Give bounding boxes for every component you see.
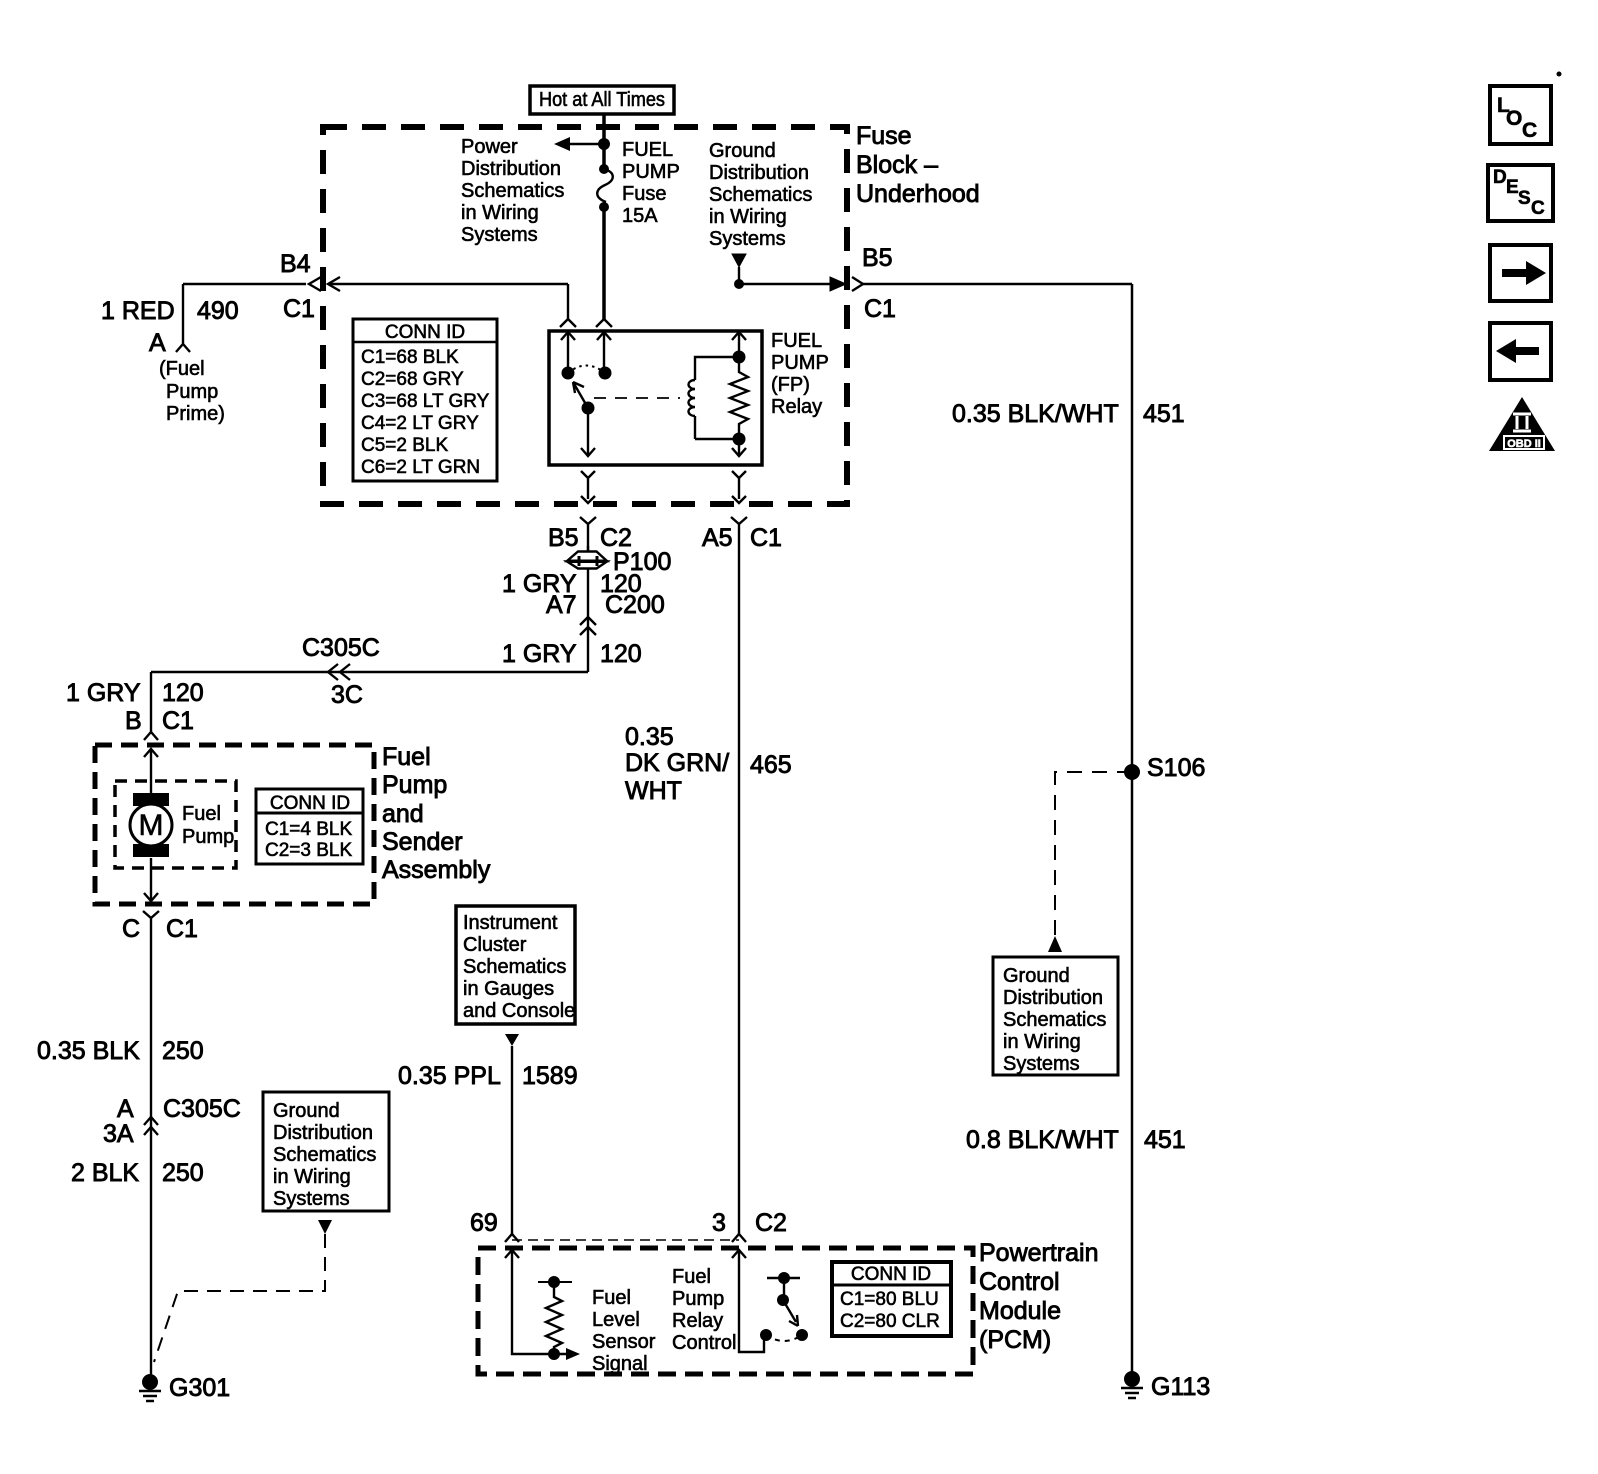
- svg-text:Assembly: Assembly: [382, 856, 491, 884]
- svg-text:2 BLK: 2 BLK: [71, 1159, 139, 1187]
- svg-text:Module: Module: [979, 1297, 1061, 1325]
- svg-text:Fuel: Fuel: [382, 743, 431, 771]
- svg-text:Fuse: Fuse: [622, 183, 666, 205]
- svg-text:Power: Power: [461, 136, 518, 158]
- svg-text:C: C: [122, 915, 140, 943]
- svg-text:in Wiring: in Wiring: [273, 1166, 351, 1188]
- svg-text:250: 250: [162, 1159, 204, 1187]
- svg-text:C1=4 BLK: C1=4 BLK: [265, 819, 352, 840]
- svg-text:Distribution: Distribution: [461, 158, 561, 180]
- svg-text:G113: G113: [1151, 1373, 1210, 1401]
- svg-text:in Wiring: in Wiring: [1003, 1031, 1081, 1053]
- svg-text:Relay: Relay: [771, 396, 822, 418]
- svg-text:0.35 BLK/WHT: 0.35 BLK/WHT: [952, 400, 1119, 428]
- svg-text:C1=68 BLK: C1=68 BLK: [361, 347, 459, 368]
- svg-text:C2=3 BLK: C2=3 BLK: [265, 840, 352, 861]
- svg-text:Block –: Block –: [856, 151, 938, 179]
- svg-text:Powertrain: Powertrain: [979, 1239, 1099, 1267]
- svg-text:Distribution: Distribution: [709, 162, 809, 184]
- svg-text:Control: Control: [672, 1332, 736, 1354]
- svg-text:Systems: Systems: [273, 1188, 350, 1210]
- svg-text:Fuse: Fuse: [856, 122, 912, 150]
- svg-text:1 RED: 1 RED: [101, 297, 175, 325]
- svg-text:B5: B5: [548, 524, 579, 552]
- svg-text:0.35: 0.35: [625, 723, 674, 751]
- svg-text:Distribution: Distribution: [1003, 987, 1103, 1009]
- svg-text:Schematics: Schematics: [273, 1144, 376, 1166]
- svg-text:C305C: C305C: [163, 1095, 241, 1123]
- svg-text:S106: S106: [1147, 754, 1205, 782]
- svg-text:DK GRN/: DK GRN/: [625, 749, 729, 777]
- svg-text:A: A: [117, 1095, 134, 1123]
- svg-text:Prime): Prime): [166, 403, 225, 425]
- svg-text:in Wiring: in Wiring: [709, 206, 787, 228]
- svg-text:Schematics: Schematics: [461, 180, 564, 202]
- svg-text:B: B: [125, 707, 142, 735]
- svg-text:Cluster: Cluster: [463, 934, 527, 956]
- svg-text:Instrument: Instrument: [463, 912, 558, 934]
- svg-text:FUEL: FUEL: [771, 330, 822, 352]
- svg-text:A5: A5: [702, 524, 733, 552]
- svg-text:and Console: and Console: [463, 1000, 575, 1022]
- svg-text:C4=2 LT GRY: C4=2 LT GRY: [361, 413, 479, 434]
- svg-text:B5: B5: [862, 244, 893, 272]
- svg-text:and: and: [382, 800, 424, 828]
- svg-text:120: 120: [600, 640, 642, 668]
- svg-text:M: M: [139, 809, 164, 842]
- svg-text:Ground: Ground: [1003, 965, 1070, 987]
- svg-text:15A: 15A: [622, 205, 658, 227]
- svg-text:A7: A7: [546, 591, 577, 619]
- svg-text:465: 465: [750, 751, 792, 779]
- svg-text:PUMP: PUMP: [771, 352, 829, 374]
- svg-text:Sender: Sender: [382, 828, 463, 856]
- svg-text:C1: C1: [162, 707, 194, 735]
- svg-text:C1: C1: [864, 295, 896, 323]
- svg-text:C1: C1: [750, 524, 782, 552]
- svg-text:451: 451: [1144, 1126, 1186, 1154]
- svg-text:Level: Level: [592, 1309, 640, 1331]
- svg-text:Ground: Ground: [273, 1100, 340, 1122]
- svg-text:CONN ID: CONN ID: [851, 1264, 931, 1285]
- svg-text:Pump: Pump: [166, 381, 218, 403]
- svg-text:490: 490: [197, 297, 239, 325]
- svg-text:C2=80 CLR: C2=80 CLR: [840, 1311, 940, 1332]
- svg-text:Systems: Systems: [1003, 1053, 1080, 1075]
- svg-text:3C: 3C: [331, 681, 363, 709]
- svg-text:FUEL: FUEL: [622, 139, 673, 161]
- svg-text:C: C: [1531, 198, 1545, 219]
- svg-text:OBD II: OBD II: [1507, 438, 1541, 450]
- svg-text:Schematics: Schematics: [1003, 1009, 1106, 1031]
- svg-text:(PCM): (PCM): [979, 1326, 1051, 1354]
- svg-text:C2=68 GRY: C2=68 GRY: [361, 369, 464, 390]
- svg-text:Schematics: Schematics: [463, 956, 566, 978]
- svg-text:C1=80 BLU: C1=80 BLU: [840, 1289, 939, 1310]
- svg-text:Systems: Systems: [461, 224, 538, 246]
- svg-text:B4: B4: [280, 250, 311, 278]
- svg-text:0.35 PPL: 0.35 PPL: [398, 1062, 501, 1090]
- svg-text:Schematics: Schematics: [709, 184, 812, 206]
- svg-text:Fuel: Fuel: [592, 1287, 631, 1309]
- svg-text:1 GRY: 1 GRY: [66, 679, 141, 707]
- svg-text:Sensor: Sensor: [592, 1331, 656, 1353]
- svg-text:D: D: [1493, 167, 1507, 188]
- svg-text:1589: 1589: [522, 1062, 578, 1090]
- svg-text:S: S: [1518, 188, 1531, 209]
- svg-text:Pump: Pump: [182, 826, 234, 848]
- svg-text:A: A: [149, 329, 166, 357]
- svg-text:O: O: [1506, 107, 1522, 130]
- svg-text:C5=2 BLK: C5=2 BLK: [361, 435, 448, 456]
- svg-text:3: 3: [712, 1209, 726, 1237]
- svg-text:Hot at All Times: Hot at All Times: [539, 89, 665, 111]
- svg-text:PUMP: PUMP: [622, 161, 680, 183]
- svg-text:3A: 3A: [103, 1120, 134, 1148]
- svg-text:(Fuel: (Fuel: [159, 358, 205, 380]
- svg-text:C6=2 LT GRN: C6=2 LT GRN: [361, 457, 480, 478]
- svg-text:Ground: Ground: [709, 140, 776, 162]
- svg-text:451: 451: [1143, 400, 1185, 428]
- svg-text:Pump: Pump: [382, 771, 447, 799]
- svg-text:Fuel: Fuel: [672, 1266, 711, 1288]
- svg-text:C3=68 LT GRY: C3=68 LT GRY: [361, 391, 490, 412]
- svg-text:C305C: C305C: [302, 634, 380, 662]
- svg-text:WHT: WHT: [625, 777, 682, 805]
- svg-text:C2: C2: [755, 1209, 787, 1237]
- svg-text:Underhood: Underhood: [856, 180, 980, 208]
- svg-text:120: 120: [162, 679, 204, 707]
- svg-text:1 GRY: 1 GRY: [502, 640, 577, 668]
- svg-text:Fuel: Fuel: [182, 803, 221, 825]
- svg-text:E: E: [1506, 177, 1519, 198]
- svg-text:0.35 BLK: 0.35 BLK: [37, 1037, 140, 1065]
- svg-text:C200: C200: [605, 591, 665, 619]
- svg-text:Systems: Systems: [709, 228, 786, 250]
- svg-text:CONN ID: CONN ID: [385, 322, 465, 343]
- svg-text:Pump: Pump: [672, 1288, 724, 1310]
- svg-text:250: 250: [162, 1037, 204, 1065]
- svg-text:in Gauges: in Gauges: [463, 978, 554, 1000]
- svg-text:Relay: Relay: [672, 1310, 723, 1332]
- svg-text:CONN ID: CONN ID: [270, 793, 350, 814]
- svg-text:C1: C1: [166, 915, 198, 943]
- svg-text:Signal: Signal: [592, 1353, 648, 1375]
- svg-text:in Wiring: in Wiring: [461, 202, 539, 224]
- svg-text:Control: Control: [979, 1268, 1060, 1296]
- svg-text:G301: G301: [169, 1374, 230, 1402]
- svg-text:69: 69: [470, 1209, 498, 1237]
- svg-text:C1: C1: [283, 295, 315, 323]
- svg-text:Distribution: Distribution: [273, 1122, 373, 1144]
- svg-text:(FP): (FP): [771, 374, 810, 396]
- svg-text:C: C: [1522, 119, 1537, 142]
- svg-text:0.8 BLK/WHT: 0.8 BLK/WHT: [966, 1126, 1119, 1154]
